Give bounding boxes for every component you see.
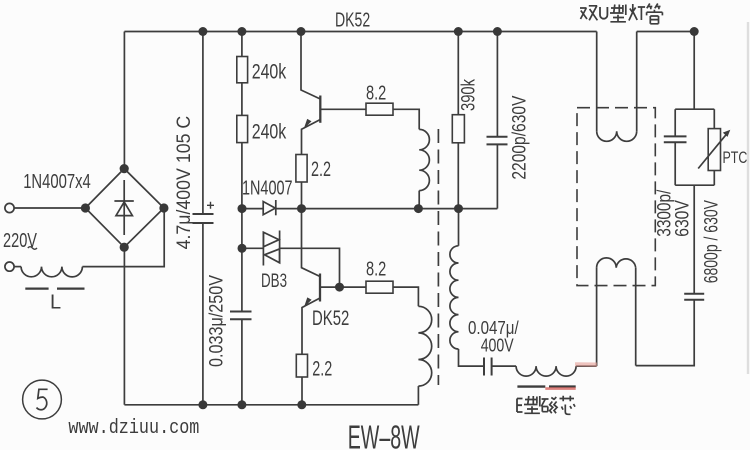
svg-text:0.033μ/250V: 0.033μ/250V (206, 275, 228, 367)
node top bus right end (690, 27, 699, 36)
wire lamp bottom to 6800p (636, 300, 695, 366)
lamp tube dashed outline (577, 108, 655, 286)
capacitor C6 6800p plate bottom (684, 299, 704, 301)
gray band right edge (747, 22, 749, 374)
wire 6800p to PTC loop (693, 185, 695, 294)
transistor Q1 emitter arrow (304, 119, 312, 129)
svg-text:4.7μ/400V 105 C: 4.7μ/400V 105 C (173, 116, 195, 250)
node bottom rail at R4 (297, 400, 306, 409)
node mid bus at winding A (414, 204, 423, 213)
lamp filament bottom arcs (597, 258, 636, 268)
svg-text:PTC: PTC (723, 149, 748, 167)
diode D5 1N4007 triangle (263, 202, 275, 215)
node Q2 base (335, 283, 344, 292)
capacitor C2 0.033u plate top (230, 311, 252, 313)
wire input terminal top (14, 207, 85, 209)
inductor L2 E-core coil (516, 366, 576, 376)
svg-text:220V: 220V (3, 229, 37, 252)
capacitor C1 4.7u plate top (193, 213, 214, 215)
transistor Q1 collector wire (301, 32, 320, 100)
node bridge left (81, 203, 90, 212)
wire top bus left section (124, 31, 596, 33)
wire 390k branch upper (457, 32, 459, 115)
wire C2 to bottom rail (241, 319, 243, 405)
wire 3300p branch lower (674, 142, 676, 185)
transistor Q1 base bar (319, 96, 321, 123)
svg-text:2200p/630V: 2200p/630V (509, 96, 531, 180)
svg-text:240k: 240k (252, 61, 287, 84)
inductor L2 core bar right (549, 385, 576, 387)
thermistor PTC box (708, 129, 720, 171)
resistor R6 8.2 (366, 281, 393, 293)
wire filter cap branch lower (202, 223, 204, 405)
capacitor C3 2200p plate top (487, 136, 508, 138)
inductor L core bar right (57, 287, 85, 289)
capacitor C1 4.7u plate bottom (193, 222, 214, 224)
node bottom rail at 0.033 (237, 400, 246, 409)
resistor R1 240k (237, 57, 248, 83)
wire PTC branch lower (713, 171, 715, 186)
lamp filament top right leg (636, 32, 638, 132)
wire 390k branch lower (457, 143, 459, 209)
resistor R2 240k (237, 115, 248, 142)
svg-text:2.2: 2.2 (311, 157, 331, 181)
svg-text:DK52: DK52 (335, 10, 370, 32)
wire mid bus main (276, 208, 497, 210)
svg-text:www.dziuu.com: www.dziuu.com (68, 417, 199, 440)
lamp filament bottom left leg (596, 268, 598, 366)
wire left vertical upper (bridge + to bus) (123, 32, 125, 169)
node top bus at Q1 collector (297, 27, 306, 36)
char 灯 (629, 4, 645, 21)
capacitor C6 6800p plate top (684, 293, 704, 295)
svg-text:390k: 390k (458, 79, 480, 111)
node top bus at filter cap (198, 27, 207, 36)
svg-text:6800p / 630V: 6800p / 630V (702, 200, 723, 284)
wire winding A to mid bus (418, 191, 420, 209)
node bridge top (120, 164, 129, 173)
char 型 (610, 5, 626, 22)
svg-text:DK52: DK52 (312, 306, 349, 330)
wire diac input (242, 247, 263, 249)
transformer core dashed line (437, 129, 439, 385)
wire top bus to PTC loop (693, 32, 695, 110)
transistor Q2 emitter arrow (304, 297, 312, 307)
char 磁 (541, 397, 557, 413)
wire terminal T2 to inductor (14, 266, 21, 268)
char 双 (580, 6, 597, 20)
bridge rectifier diamond (85, 169, 163, 248)
lamp filament bottom right leg (635, 268, 637, 366)
PTC loop top (675, 108, 714, 110)
node bridge bottom (120, 243, 129, 252)
wire C4 to E-core inductor (492, 365, 516, 367)
resistor R5 8.2 (366, 103, 393, 115)
transformer winding C top lead (458, 209, 460, 246)
char 管 (647, 4, 663, 24)
wire R5 to winding A (393, 109, 419, 129)
wire Q1 base to R5 (320, 108, 366, 110)
PTC loop bottom (675, 184, 714, 186)
label figure number circle (23, 380, 62, 419)
transformer winding C (450, 246, 459, 349)
diac DB3 left bar (262, 232, 264, 266)
wire winding B to bottom rail (417, 386, 419, 405)
char U (600, 7, 607, 19)
svg-text:8.2: 8.2 (366, 82, 386, 105)
wire R4 to bottom rail (301, 377, 303, 405)
thermistor PTC arrowhead (723, 130, 731, 137)
transformer winding B (418, 306, 431, 386)
node bottom rail at filter cap (198, 400, 207, 409)
wire PTC branch upper (713, 109, 715, 128)
wire top bus right section (637, 31, 695, 33)
diac DB3 upper triangle (263, 232, 279, 247)
label 220V tilde (28, 247, 37, 250)
transistor Q2 emitter wire (302, 298, 320, 354)
wire 2200p branch lower (496, 144, 498, 208)
node bridge right (159, 203, 168, 212)
wire mid bus left (diode anode side) (242, 208, 263, 210)
diac DB3 lower triangle (265, 249, 280, 263)
node top bus at 390k (454, 27, 463, 36)
bridge diode triangle (116, 202, 132, 216)
terminal T1 (5, 203, 14, 212)
node top bus at divider (237, 27, 246, 36)
diac DB3 right bar (279, 231, 281, 264)
resistor R7 390k (452, 115, 464, 143)
label lamp Chinese 双U型灯管 (580, 4, 662, 24)
wire 2200p branch upper (496, 32, 498, 137)
bridge diode cathode bar (114, 200, 133, 202)
wire 3300p branch upper (674, 109, 676, 136)
wire Q2 base to R6 (320, 286, 366, 288)
svg-text:630V: 630V (673, 200, 694, 237)
capacitor C5 3300p plate bottom (664, 141, 687, 143)
char 型 (524, 396, 540, 413)
lamp filament top arcs (597, 131, 637, 141)
transistor Q2 base bar (319, 274, 321, 302)
node diac input (238, 244, 247, 253)
red artifact near lamp wire (575, 362, 597, 367)
wire R3 to mid bus (301, 182, 303, 209)
bridge diode vertical lead (123, 180, 125, 235)
lamp filament top left leg (596, 32, 598, 132)
node mid bus at divider (238, 204, 247, 213)
node mid bus at winding C (454, 204, 463, 213)
wire left vertical lower (bridge - to bottom rail) (123, 247, 125, 405)
capacitor C5 3300p plate top (664, 135, 687, 137)
svg-text:EW–8W: EW–8W (348, 419, 421, 450)
wire L2 to lamp filament (576, 365, 597, 367)
inductor L coil (21, 267, 82, 277)
capacitor C3 2200p plate bottom (487, 143, 508, 145)
wire winding C to resonant cap (459, 349, 485, 366)
transistor Q1 emitter wire (302, 120, 321, 155)
wire between R1 R2 (241, 83, 243, 116)
inductor L2 core bar left (517, 385, 545, 387)
label E-core Chinese E型磁芯 (517, 396, 575, 415)
diode D5 cathode bar (275, 200, 277, 215)
svg-text:240k: 240k (252, 120, 287, 143)
svg-text:1N4007x4: 1N4007x4 (23, 171, 91, 193)
resistor R3 2.2 (296, 155, 307, 183)
svg-text:2.2: 2.2 (312, 356, 332, 380)
svg-text:DB3: DB3 (261, 271, 287, 292)
capacitor C4 0.047u plate right (491, 358, 493, 376)
wire R2 to 0.033 cap (241, 143, 243, 312)
char E (517, 399, 523, 413)
wire diac output to Q2 base node (280, 248, 340, 287)
wire filter cap branch upper (202, 32, 204, 215)
capacitor C1 plus sign (207, 202, 214, 209)
transformer winding A (419, 129, 429, 190)
label figure number 5 (37, 389, 48, 409)
resistor R4 2.2 (296, 354, 307, 377)
svg-text:L: L (50, 291, 61, 313)
char 芯 (560, 396, 576, 415)
svg-text:400V: 400V (481, 336, 514, 356)
wire divider branch top (241, 32, 243, 57)
transistor Q2 collector wire (302, 209, 321, 277)
wire inductor L to bridge (82, 208, 164, 267)
terminal T2 (5, 262, 14, 271)
thermistor PTC arrow line (698, 133, 727, 168)
wire R6 to winding B (393, 287, 418, 306)
capacitor C2 0.033u plate bottom (230, 318, 252, 320)
svg-text:1N4007: 1N4007 (242, 177, 293, 199)
red artifact under core bars (545, 387, 575, 390)
node mid bus at Q1 emitter (297, 204, 306, 213)
inductor L core bar left (25, 287, 48, 289)
node top bus at 2200p (493, 27, 502, 36)
capacitor C4 0.047u plate left (483, 358, 485, 376)
wire bottom rail (124, 404, 418, 406)
svg-text:8.2: 8.2 (366, 258, 386, 281)
